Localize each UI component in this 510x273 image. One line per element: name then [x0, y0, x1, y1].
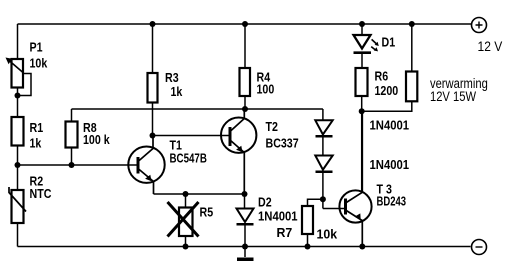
node diode chain / R7 / T3 base junction: [320, 196, 326, 202]
resistor R3: [148, 24, 158, 136]
svg-text:R6: R6: [375, 68, 389, 83]
svg-text:100: 100: [257, 81, 275, 96]
svg-text:BC337: BC337: [266, 135, 300, 150]
svg-text:12V 15W: 12V 15W: [430, 89, 476, 104]
node T2 emitter / D2 junction: [242, 191, 248, 197]
terminal +12V: [472, 18, 487, 33]
node T1 collector junction: [150, 133, 156, 139]
svg-text:R7: R7: [277, 226, 293, 240]
wire feedback bus (R8 top to diodes, through T2 collector): [72, 108, 323, 110]
node R5 bottom: [183, 244, 189, 250]
potentiometer P1: [6, 58, 24, 88]
node R5 top: [183, 191, 189, 197]
wire R1 bottom: [17, 146, 19, 166]
resistor R7: [302, 206, 313, 247]
svg-text:T1: T1: [170, 137, 183, 152]
node P1 wiper junction: [15, 93, 21, 99]
diode D2 1N4001: [237, 194, 254, 257]
wire bottom bus (0V rail): [18, 246, 471, 248]
resistor R5 (crossed out): [168, 194, 199, 247]
diode D3 1N4001 (upper series): [315, 109, 332, 156]
svg-text:10k: 10k: [317, 227, 339, 241]
node R8 bottom junction: [69, 162, 75, 168]
ground: [237, 258, 254, 262]
svg-text:T2: T2: [266, 119, 279, 134]
svg-text:BC547B: BC547B: [170, 152, 207, 166]
svg-text:D2: D2: [258, 194, 272, 209]
thermistor R2 NTC: [9, 165, 26, 223]
svg-text:D1: D1: [382, 34, 396, 49]
svg-text:NTC: NTC: [30, 186, 52, 201]
diode D4 1N4001 (lower series): [315, 156, 332, 209]
svg-text:BD243: BD243: [377, 195, 407, 209]
node D2 bottom on bus: [242, 244, 248, 250]
transistor T2 BC337: [221, 109, 256, 194]
transistor T3 BD243: [339, 111, 371, 246]
node R1-R2 junction: [15, 162, 21, 168]
LED D1: [354, 24, 379, 68]
svg-text:1N4001: 1N4001: [258, 209, 298, 224]
wire P1 wiper: [18, 74, 32, 96]
resistor R6: [356, 68, 368, 192]
wire to T3 base: [323, 208, 344, 210]
node R7 bottom: [305, 244, 311, 250]
resistor R4: [240, 24, 251, 109]
svg-text:1200: 1200: [375, 83, 399, 98]
wire to R7 top: [308, 199, 323, 206]
wire left rail top (bus to P1): [17, 24, 19, 59]
terminal minus: [472, 240, 487, 255]
svg-text:R3: R3: [165, 70, 179, 85]
resistor R1: [12, 117, 24, 146]
node D1 top: [359, 21, 365, 27]
node T3 emitter on bus: [359, 244, 365, 250]
node R3 top: [150, 21, 156, 27]
svg-text:R1: R1: [30, 120, 44, 135]
node load top: [409, 21, 415, 27]
svg-text:10k: 10k: [30, 55, 48, 70]
wire top bus (+12V rail): [18, 23, 472, 25]
svg-text:12 V: 12 V: [478, 38, 503, 54]
wire P1 bottom to R1: [17, 88, 19, 118]
node R6 bottom / load junction: [359, 108, 365, 114]
svg-text:1N4001: 1N4001: [370, 157, 410, 172]
svg-text:1N4001: 1N4001: [370, 118, 410, 133]
svg-text:P1: P1: [30, 39, 43, 54]
svg-text:100 k: 100 k: [83, 132, 110, 147]
wire base rail (R1/R2 junction to T1 base): [18, 164, 137, 166]
svg-text:R5: R5: [200, 204, 214, 219]
wire T1 collector to T2 base: [153, 135, 229, 137]
svg-text:1k: 1k: [30, 135, 42, 150]
wire emitter rail (T1 emitter to T2 emitter): [154, 193, 245, 195]
resistor R8: [66, 109, 78, 165]
heater load (verwarming): [362, 24, 418, 111]
node R4 top: [242, 21, 248, 27]
node T2 collector junction: [242, 106, 248, 112]
transistor T1 BC547B: [128, 136, 164, 195]
wire R2 bottom to ground bus: [17, 223, 19, 247]
svg-text:1k: 1k: [171, 84, 183, 99]
